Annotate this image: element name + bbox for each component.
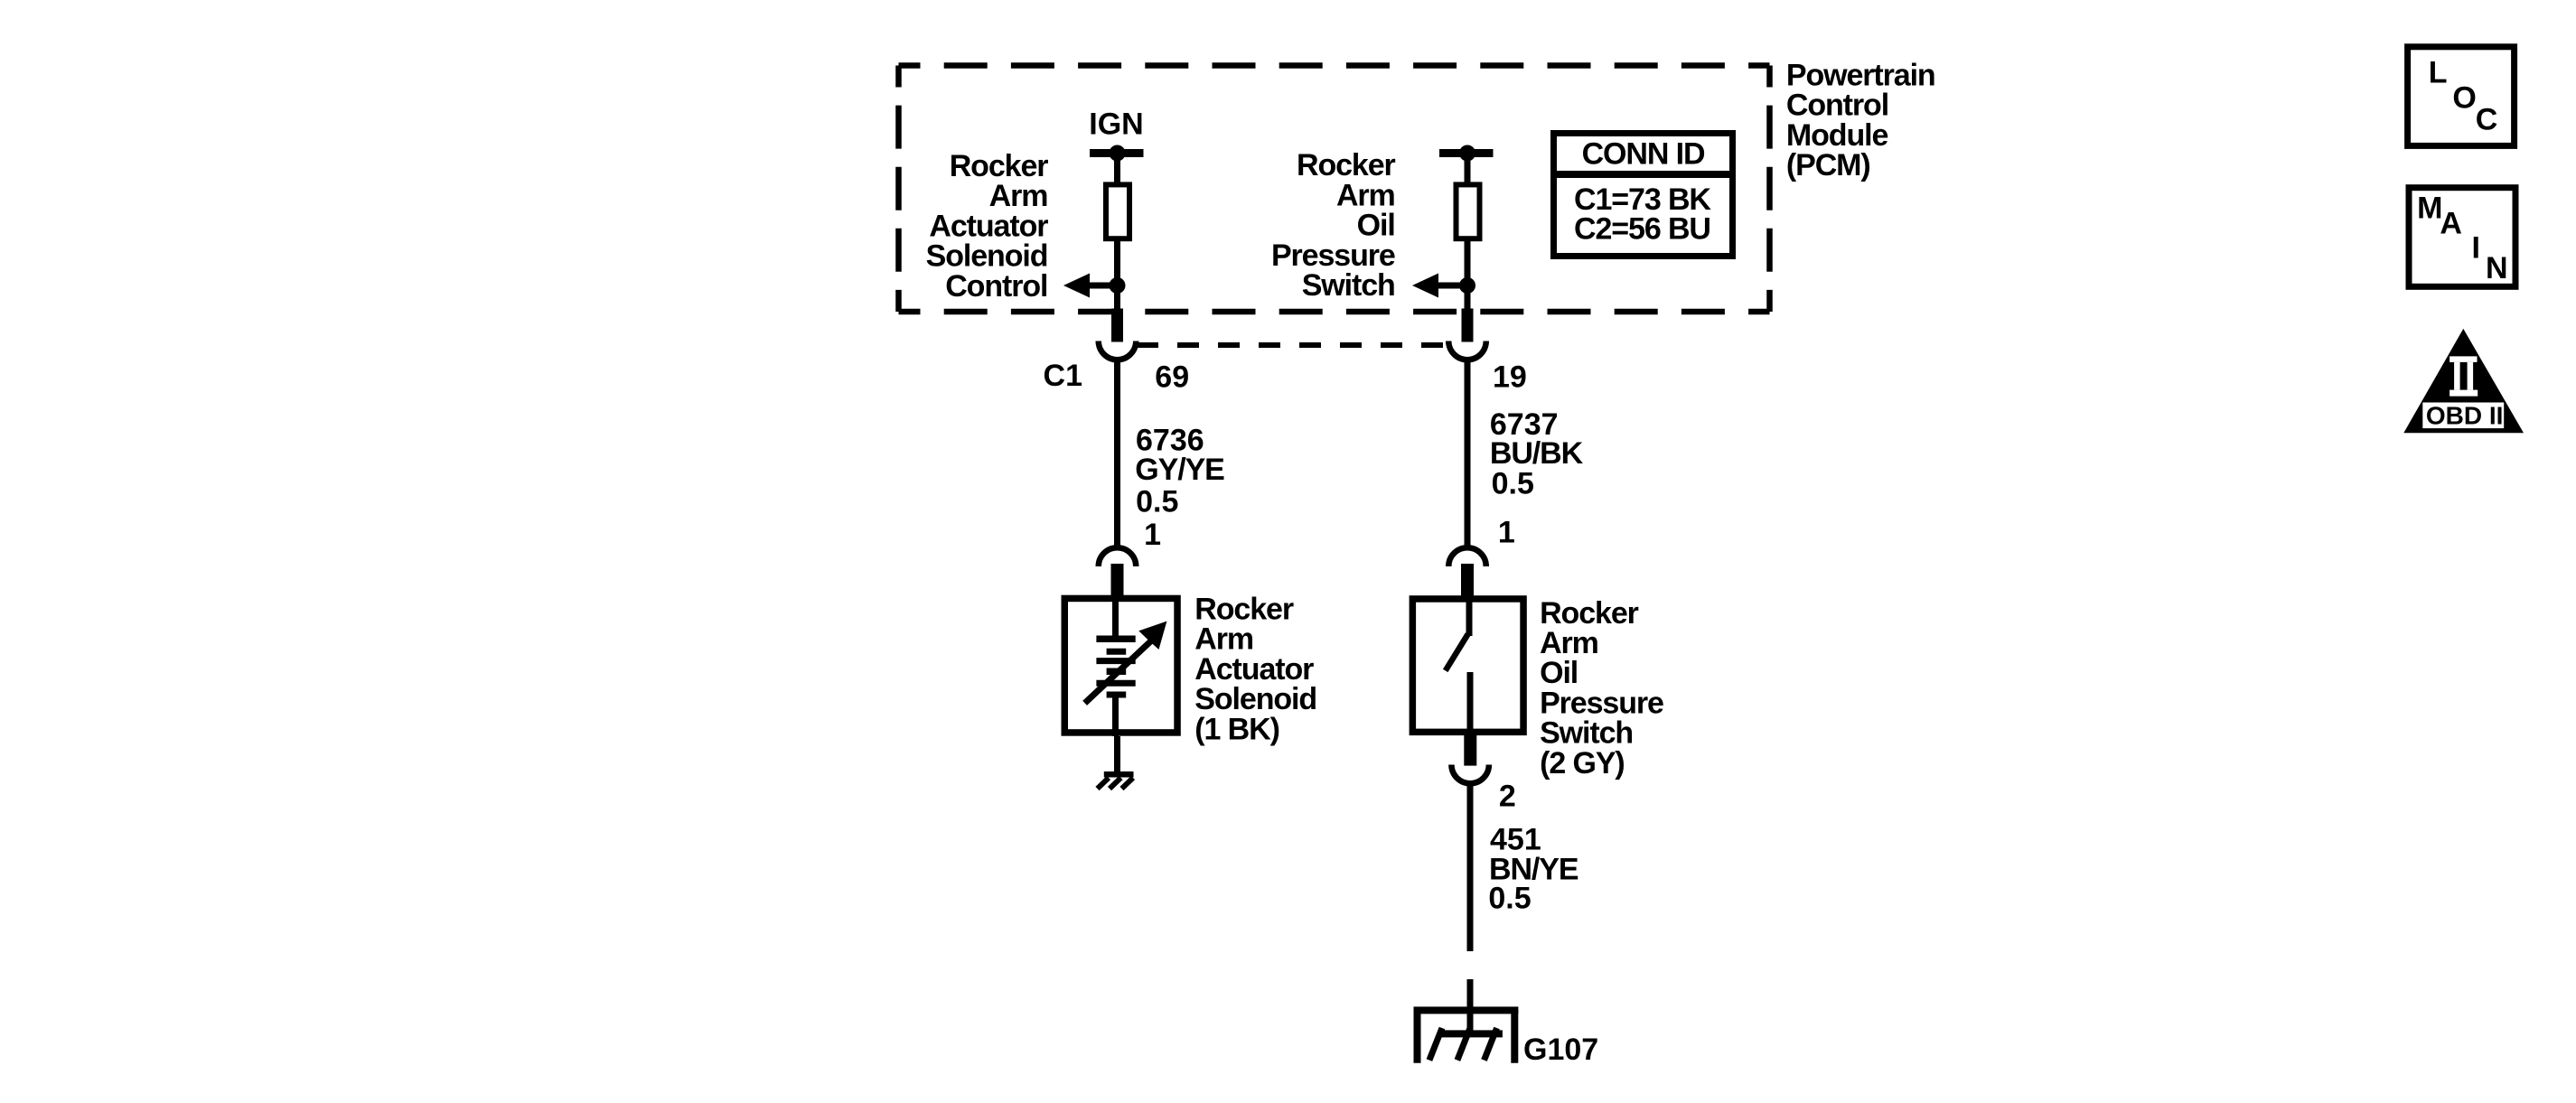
solenoid component box xyxy=(1064,598,1177,733)
label Rocker Arm Oil Pressure Switch (PCM input) xyxy=(1271,148,1396,303)
LOC letters xyxy=(2429,55,2497,136)
MAIN letters xyxy=(2417,192,2507,285)
wire resistor to PCM box bottom (left) xyxy=(1114,238,1120,312)
svg-text:(PCM): (PCM) xyxy=(1786,148,1870,182)
MAIN reference box xyxy=(2409,188,2515,287)
wire IGN bar to resistor (left) xyxy=(1114,154,1120,185)
male pin into pressure switch xyxy=(1461,564,1474,598)
svg-text:N: N xyxy=(2486,251,2508,285)
svg-text:G107: G107 xyxy=(1523,1033,1598,1067)
svg-text:1: 1 xyxy=(1144,518,1161,552)
wire label 451 BN/YE 0.5 xyxy=(1488,823,1578,916)
svg-text:1: 1 xyxy=(1498,516,1515,550)
label Rocker Arm Actuator Solenoid (1 BK) xyxy=(1194,593,1316,747)
svg-text:A: A xyxy=(2440,207,2462,241)
wire solenoid to ground xyxy=(1114,736,1120,774)
connector C1 boundary dotted line xyxy=(1137,342,1443,348)
svg-text:0.5: 0.5 xyxy=(1488,882,1531,916)
IGN power node bar (left) xyxy=(1090,149,1144,157)
arrow for oil pressure switch input (right) xyxy=(1412,274,1467,298)
solenoid variable arrow xyxy=(1085,622,1167,704)
svg-text:(2 GY): (2 GY) xyxy=(1540,746,1625,781)
wire 451 BN/YE upper segment xyxy=(1467,783,1474,951)
svg-text:C1: C1 xyxy=(1044,359,1082,393)
wire label 6737 BU/BK 0.5 xyxy=(1490,407,1584,501)
svg-text:CONN ID: CONN ID xyxy=(1582,137,1705,172)
svg-text:L: L xyxy=(2429,55,2448,89)
wire 6737 BU/BK (right vertical) xyxy=(1465,360,1471,546)
svg-text:Control: Control xyxy=(945,269,1047,304)
PCM label Powertrain Control Module (PCM) xyxy=(1786,58,1935,182)
resistor (PCM internal, right) xyxy=(1457,184,1480,238)
pressure switch component box xyxy=(1412,599,1523,732)
junction dot (left driver output) xyxy=(1110,277,1126,294)
OBD II label plate xyxy=(2422,402,2504,430)
svg-text:OBD II: OBD II xyxy=(2426,402,2504,430)
arrow for solenoid control output (left) xyxy=(1063,274,1118,298)
svg-text:BU/BK: BU/BK xyxy=(1490,436,1584,471)
connector cup C1 pin 19 xyxy=(1448,341,1486,360)
connector cup C1 pin 69 xyxy=(1099,341,1137,360)
male pin into connector C1 pin 19 xyxy=(1462,309,1474,342)
wire bar to resistor (right) xyxy=(1465,154,1471,185)
solenoid internal lead top xyxy=(1112,598,1119,639)
male pin into connector C1 pin 69 xyxy=(1111,309,1123,342)
svg-text:69: 69 xyxy=(1155,360,1189,395)
OBD II triangle xyxy=(2403,329,2524,433)
svg-text:IGN: IGN xyxy=(1089,107,1143,142)
solenoid internal lead bottom xyxy=(1112,695,1119,736)
male pin into solenoid xyxy=(1111,564,1124,598)
svg-text:Control: Control xyxy=(1786,89,1888,123)
LOC reference box xyxy=(2408,47,2515,146)
svg-text:19: 19 xyxy=(1493,360,1527,395)
svg-text:Switch: Switch xyxy=(1302,268,1395,303)
label Rocker Arm Oil Pressure Switch (2 GY) xyxy=(1540,596,1663,781)
junction dot (right sense input) xyxy=(1459,277,1475,294)
PCM module dashed box xyxy=(899,66,1770,313)
switch fixed contact bottom xyxy=(1467,672,1474,734)
wire 6736 GY/YE (left vertical) xyxy=(1114,360,1120,546)
wire 451 lower segment to ground xyxy=(1467,979,1474,1033)
svg-text:0.5: 0.5 xyxy=(1492,467,1534,501)
junction dot at IGN bar (left) xyxy=(1110,145,1126,162)
wire resistor to PCM box bottom (right) xyxy=(1465,238,1471,312)
solenoid plates xyxy=(1096,639,1135,695)
label Rocker Arm Actuator Solenoid Control xyxy=(926,149,1049,304)
svg-text:O: O xyxy=(2452,81,2476,116)
svg-text:M: M xyxy=(2417,192,2442,226)
wire label 6736 GY/YE 0.5 xyxy=(1135,424,1224,519)
svg-text:(1 BK): (1 BK) xyxy=(1194,712,1279,746)
connector cup above pressure switch xyxy=(1448,547,1486,566)
switch blade xyxy=(1446,634,1468,670)
svg-text:0.5: 0.5 xyxy=(1136,484,1178,519)
svg-text:Powertrain: Powertrain xyxy=(1786,58,1935,92)
power node bar (right) xyxy=(1439,149,1494,157)
male pin below pressure switch xyxy=(1464,734,1476,766)
svg-text:C2=56 BU: C2=56 BU xyxy=(1574,212,1710,247)
CONN ID table xyxy=(1550,134,1736,257)
svg-text:Module: Module xyxy=(1786,118,1888,153)
svg-text:C: C xyxy=(2476,102,2498,136)
junction dot at node bar (right) xyxy=(1459,145,1475,162)
connector cup above solenoid xyxy=(1099,547,1137,566)
connector cup below pressure switch pin 2 xyxy=(1451,765,1489,784)
svg-text:2: 2 xyxy=(1499,779,1516,813)
resistor (PCM internal, left) xyxy=(1106,184,1129,238)
OBD II pillar symbol xyxy=(2450,356,2478,396)
svg-text:GY/YE: GY/YE xyxy=(1135,453,1224,487)
chassis ground below solenoid xyxy=(1098,774,1134,789)
switch fixed contact top xyxy=(1466,598,1473,636)
svg-text:I: I xyxy=(2472,230,2480,265)
ground G107 symbol xyxy=(1414,1010,1519,1063)
